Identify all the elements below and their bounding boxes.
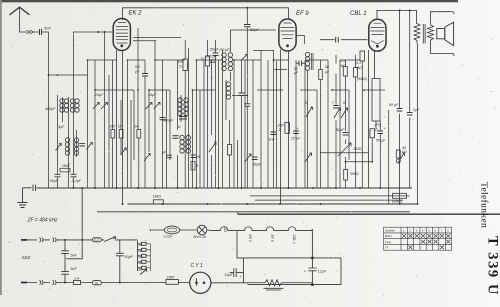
svg-text:100: 100 <box>178 60 184 64</box>
svg-text:480µF: 480µF <box>163 119 174 123</box>
svg-text:Ω: Ω <box>375 128 378 132</box>
svg-text:Ω: Ω <box>118 125 121 129</box>
svg-text:5nF: 5nF <box>71 254 78 258</box>
svg-text:Schalter: Schalter <box>385 228 395 232</box>
svg-text:Telefunken: Telefunken <box>479 182 490 228</box>
svg-text:51W: 51W <box>22 255 32 260</box>
svg-text:Ω: Ω <box>178 125 181 129</box>
svg-text:EK 2: EK 2 <box>129 11 143 17</box>
svg-text:B/V.0,2A: B/V.0,2A <box>194 235 206 239</box>
svg-text:T 339 U: T 339 U <box>485 236 500 296</box>
svg-text:110: 110 <box>138 243 143 247</box>
svg-text:(50 µF): (50 µF) <box>220 48 231 52</box>
svg-text:Ω: Ω <box>279 128 282 132</box>
svg-text:50 µF: 50 µF <box>389 103 399 107</box>
svg-text:0,12A: 0,12A <box>164 235 172 239</box>
svg-text:240: 240 <box>138 268 143 272</box>
svg-text:50 µF: 50 µF <box>376 139 386 143</box>
svg-text:15µF: 15µF <box>225 273 234 277</box>
svg-text:4µF: 4µF <box>58 125 65 129</box>
svg-text:1nF: 1nF <box>269 138 276 142</box>
svg-text:CBL 1: CBL 1 <box>292 235 296 244</box>
svg-text:1A3: 1A3 <box>223 226 227 232</box>
svg-text:24µF: 24µF <box>94 93 104 97</box>
svg-text:50µF: 50µF <box>125 255 134 259</box>
svg-text:14: 14 <box>134 125 138 129</box>
svg-text:TA: TA <box>385 246 388 250</box>
svg-text:1MΩ: 1MΩ <box>62 164 70 168</box>
svg-text:-0,2µF: -0,2µF <box>71 179 82 183</box>
svg-text:50µF: 50µF <box>250 27 260 32</box>
svg-text:CBL 1: CBL 1 <box>350 11 367 17</box>
svg-text:50kΩ: 50kΩ <box>350 172 359 176</box>
svg-text:5nF: 5nF <box>71 267 78 271</box>
svg-text:200: 200 <box>108 125 115 129</box>
svg-text:480µF: 480µF <box>45 107 56 111</box>
svg-text:MΩ: MΩ <box>356 66 362 70</box>
svg-text:6: 6 <box>343 101 345 105</box>
svg-text:200: 200 <box>277 124 284 128</box>
svg-text:14kΩ: 14kΩ <box>153 195 162 199</box>
svg-text:EF 9: EF 9 <box>270 235 274 242</box>
svg-text:0.1: 0.1 <box>340 59 345 63</box>
svg-text:EK 2: EK 2 <box>248 235 252 242</box>
svg-text:50µF: 50µF <box>50 179 59 183</box>
svg-text:5.0: 5.0 <box>135 65 140 69</box>
svg-text:2µF: 2µF <box>412 108 420 112</box>
svg-text:(75): (75) <box>375 123 381 127</box>
svg-text:(5MΩ): (5MΩ) <box>357 77 367 81</box>
svg-text:220: 220 <box>138 261 143 265</box>
svg-text:HE: HE <box>196 155 201 159</box>
svg-text:24µF: 24µF <box>147 93 157 97</box>
svg-text:(8MΩ): (8MΩ) <box>392 200 402 204</box>
svg-text:150: 150 <box>138 255 143 259</box>
svg-text:Lang: Lang <box>385 240 391 244</box>
svg-text:ZF = 484 kHz: ZF = 484 kHz <box>27 218 59 224</box>
svg-text:Mittel: Mittel <box>385 234 392 238</box>
svg-text:MΩ: MΩ <box>340 64 346 68</box>
svg-text:Ω: Ω <box>179 65 182 69</box>
svg-text:100 µF: 100 µF <box>206 55 218 59</box>
svg-text:DR5: DR5 <box>167 275 174 279</box>
svg-text:5nF: 5nF <box>44 26 51 31</box>
svg-text:50µF: 50µF <box>336 128 345 132</box>
svg-text:25 µF: 25 µF <box>290 137 301 141</box>
svg-text:8: 8 <box>196 164 198 168</box>
svg-text:70: 70 <box>95 281 99 285</box>
svg-text:0,2: 0,2 <box>94 238 99 242</box>
svg-text:150µF: 150µF <box>209 48 220 52</box>
svg-text:10: 10 <box>201 57 205 61</box>
svg-text:1 A: 1 A <box>74 276 80 280</box>
svg-text:EF 9: EF 9 <box>296 11 309 17</box>
svg-text:50: 50 <box>325 65 329 69</box>
svg-text:125: 125 <box>138 249 143 253</box>
svg-text:12µF: 12µF <box>318 269 327 273</box>
svg-text:5: 5 <box>305 101 307 105</box>
svg-text:kΩ: kΩ <box>402 150 407 154</box>
svg-text:50µF: 50µF <box>253 163 262 167</box>
svg-text:C Y 1: C Y 1 <box>191 263 204 269</box>
